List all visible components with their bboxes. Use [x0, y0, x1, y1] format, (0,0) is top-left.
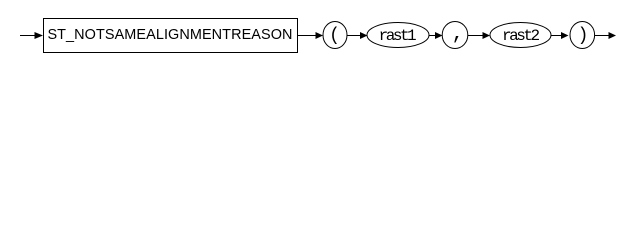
arrowhead into comma — [435, 32, 443, 39]
wire: rast1 to comma — [429, 35, 436, 37]
arrowhead into rast2 — [483, 32, 491, 39]
wire: entry line — [20, 35, 37, 37]
box ST_NOTSAMEALIGNMENTREASON — [44, 19, 298, 53]
terminal , — [442, 22, 468, 49]
svg-text:): ) — [578, 26, 589, 46]
wire: comma to rast2 — [468, 35, 484, 37]
terminal rast2 — [490, 23, 551, 48]
wire: rast2 to close paren — [551, 35, 562, 37]
svg-text:ST_NOTSAMEALIGNMENTREASON: ST_NOTSAMEALIGNMENTREASON — [47, 27, 292, 43]
svg-text:rast1: rast1 — [379, 27, 416, 45]
arrowhead into open paren — [316, 32, 324, 39]
terminal ( — [323, 22, 347, 49]
railroad syntax diagram — [0, 0, 620, 58]
background — [0, 0, 620, 58]
wire: box to open paren — [298, 35, 318, 37]
svg-text:rast2: rast2 — [502, 27, 539, 45]
terminal ) — [570, 22, 595, 49]
svg-text:(: ( — [329, 26, 340, 46]
wire: open paren to rast1 — [347, 35, 361, 37]
arrowhead into rast1 — [360, 32, 368, 39]
terminal rast1 — [367, 23, 429, 48]
arrowhead into box — [35, 32, 44, 39]
arrowhead into close paren — [561, 32, 569, 39]
svg-text:,: , — [452, 23, 464, 46]
arrowhead exit — [609, 32, 617, 39]
wire: exit line — [595, 35, 609, 37]
